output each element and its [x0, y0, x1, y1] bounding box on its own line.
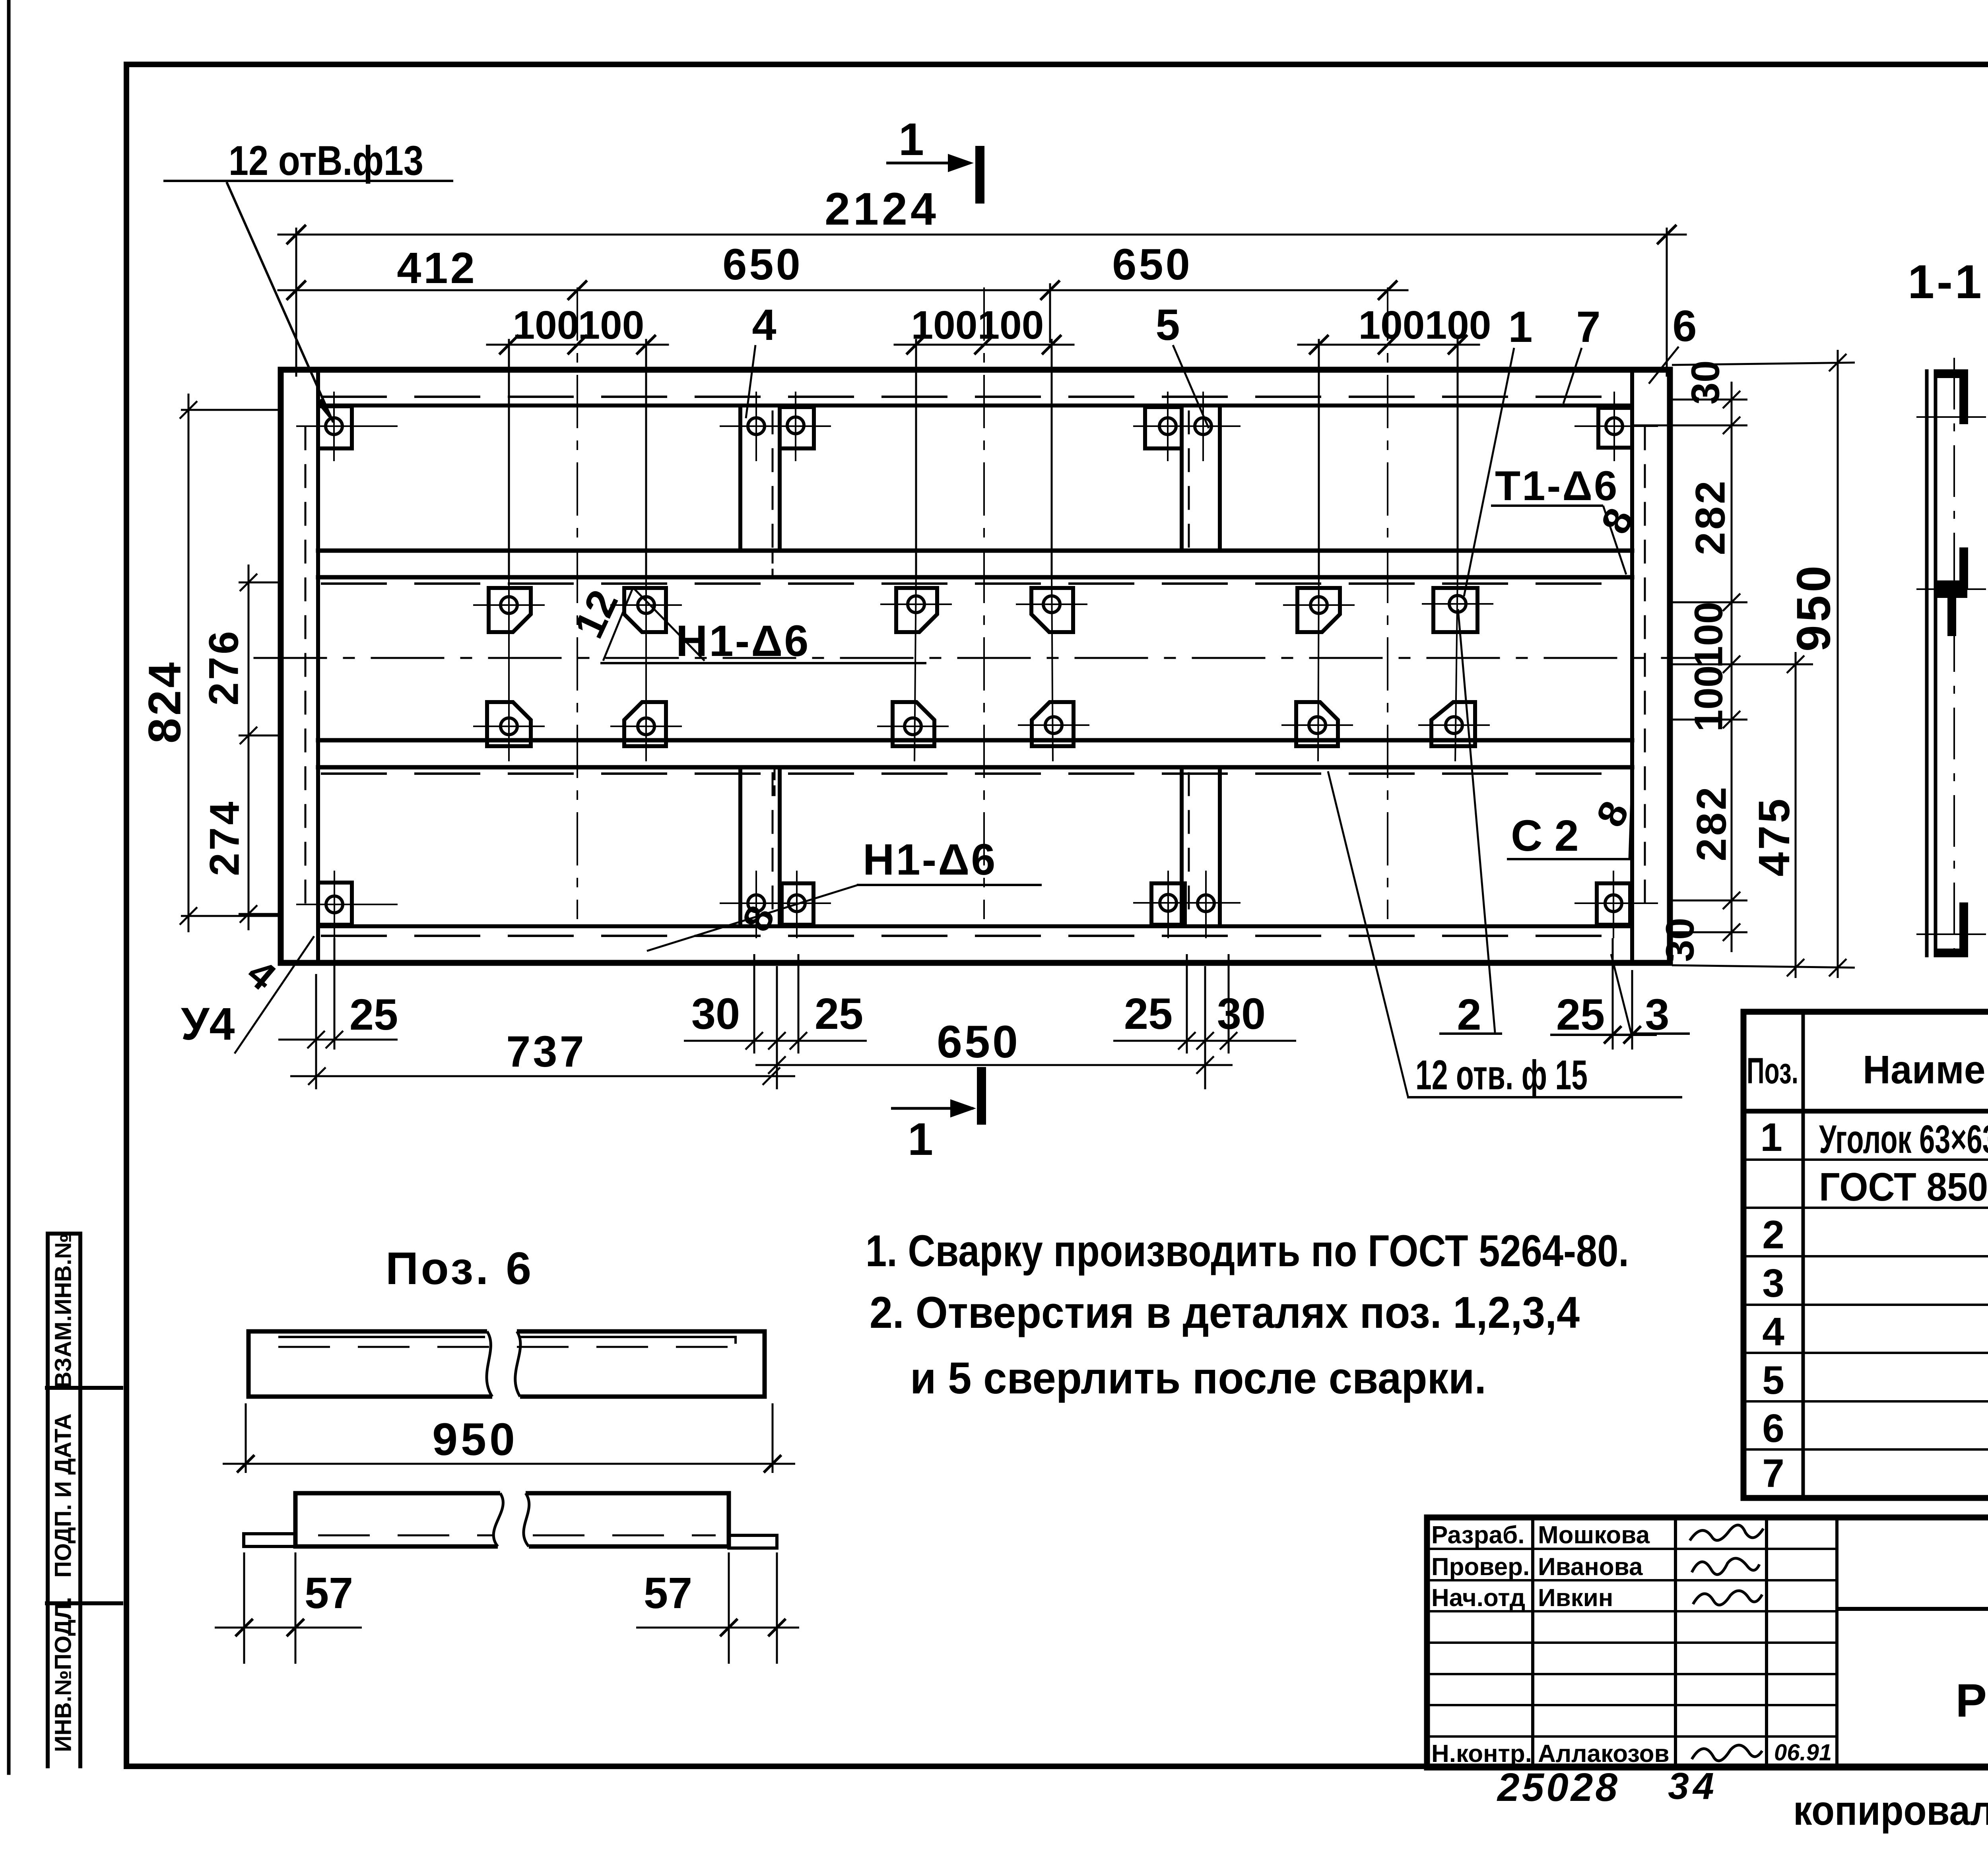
svg-text:6: 6	[1762, 1406, 1784, 1451]
group centre axis C	[1387, 288, 1388, 918]
parts table outer border	[1743, 1012, 1988, 1498]
svg-text:1: 1	[908, 1114, 933, 1165]
P6 profile break squiggles	[493, 1493, 503, 1546]
bottom rail hidden line	[322, 935, 1630, 937]
P6 hidden line	[278, 1346, 755, 1348]
svg-text:412: 412	[397, 244, 477, 293]
P6 profile right lip	[729, 1535, 777, 1548]
title block designation cell line	[1837, 1607, 1988, 1611]
clip P1 left of P5 top	[1145, 407, 1182, 448]
svg-text:4: 4	[752, 301, 776, 349]
group centre axis B	[983, 288, 985, 918]
svg-text:1-1: 1-1	[1908, 255, 1984, 308]
svg-text:25: 25	[349, 990, 398, 1039]
svg-text:Поз. 6: Поз. 6	[386, 1243, 534, 1294]
second middle rail P7 lower edge	[318, 765, 1632, 770]
svg-text:Иванова: Иванова	[1538, 1553, 1643, 1581]
svg-text:34: 34	[1668, 1765, 1718, 1807]
svg-text:5: 5	[1762, 1358, 1784, 1403]
HOLES	[296, 392, 1658, 938]
svg-text:С2: С2	[1511, 811, 1591, 860]
clip P2 top-right corner	[1598, 408, 1632, 448]
svg-text:7: 7	[1576, 303, 1600, 351]
cross member P5 upper hidden edge	[1188, 411, 1190, 549]
svg-text:Н1-Δ6: Н1-Δ6	[863, 835, 997, 884]
holes row2 f15	[501, 596, 1466, 613]
extension lines top dims	[296, 229, 1667, 574]
P6 profile view left lip	[244, 1534, 295, 1546]
svg-text:3: 3	[1645, 990, 1669, 1039]
section axis line	[1953, 358, 1955, 968]
clip P2 bottom-right corner	[1597, 883, 1630, 925]
signature Ivanova	[1692, 1558, 1759, 1575]
extension lines 25 bottom right	[1612, 938, 1614, 1050]
clip P1 right of P4 bottom	[782, 883, 813, 925]
dim line 737	[290, 1075, 795, 1077]
section mid upper angle	[1959, 547, 1968, 589]
dim line 950 right	[1837, 350, 1839, 978]
P6 profile body left half	[295, 1493, 500, 1546]
extension lines bottom group P5	[1186, 954, 1188, 1054]
section mid lower angle	[1936, 589, 1967, 598]
svg-text:950: 950	[432, 1414, 518, 1465]
svg-text:Т1-Δ6: Т1-Δ6	[1495, 463, 1619, 509]
svg-text:100: 100	[1686, 602, 1731, 668]
svg-text:12 отВ.ф13: 12 отВ.ф13	[229, 138, 423, 184]
bottom rail P7 inner edge	[318, 924, 1632, 928]
svg-text:25028: 25028	[1497, 1765, 1620, 1810]
svg-text:2. Отверстия в деталях поз. 1,: 2. Отверстия в деталях поз. 1,2,3,4	[870, 1288, 1580, 1337]
page left edge line	[7, 0, 11, 1773]
svg-text:ИНВ.№ПОДЛ.: ИНВ.№ПОДЛ.	[50, 1597, 76, 1752]
dim line 25 bottom left	[278, 1039, 398, 1041]
P6 dim 57 right	[636, 1627, 799, 1629]
extension lines bottom group P4	[753, 954, 755, 1054]
svg-text:25: 25	[815, 989, 863, 1038]
parts table row lines	[1743, 1158, 1988, 1161]
svg-text:Поз.: Поз.	[1747, 1051, 1798, 1091]
frame outer outline	[281, 370, 1670, 963]
svg-text:25: 25	[1556, 990, 1605, 1039]
top rail hidden line	[322, 396, 1630, 398]
dim lines 100+100 group C	[1298, 344, 1479, 346]
dim lines 100+100 group A	[487, 344, 668, 346]
svg-text:2: 2	[1762, 1213, 1784, 1257]
holes row3 f15	[501, 717, 1462, 735]
svg-text:100: 100	[1425, 303, 1491, 347]
bottom dims	[278, 938, 1632, 1089]
cross member P4 upper part	[740, 405, 780, 551]
svg-text:7: 7	[1762, 1451, 1784, 1496]
dim chain 412-650-650	[278, 289, 1408, 291]
clip P1 right of P4 top	[780, 407, 814, 448]
section bottom angle	[1959, 902, 1968, 957]
title block row lines	[1427, 1548, 1837, 1550]
hole center verticals rows2-3	[509, 572, 1458, 761]
clip P3 row3 f	[1431, 702, 1475, 746]
P6 flange edge line	[278, 1337, 736, 1344]
clip P3 row2 f	[1433, 588, 1477, 632]
P6 long view outline right half	[517, 1331, 765, 1397]
signature Ivkin	[1693, 1591, 1762, 1605]
svg-text:30: 30	[1658, 918, 1702, 962]
right end angle hidden line	[1644, 427, 1646, 914]
svg-text:57: 57	[644, 1569, 692, 1618]
svg-text:Уголок 63×63×6: Уголок 63×63×6	[1819, 1117, 1988, 1162]
parts table column lines	[1802, 1012, 1805, 1498]
svg-text:Нач.отд: Нач.отд	[1431, 1584, 1525, 1612]
parts table header line	[1743, 1109, 1988, 1114]
signature Allakozov	[1692, 1745, 1762, 1761]
svg-text:5.407-139.1-20: 5.407-139.1-20	[1986, 1541, 1988, 1595]
top rail P7 inner edge	[318, 404, 1632, 407]
frame horizontal axis line	[254, 657, 1694, 659]
clip P3 row2 d	[1031, 588, 1073, 632]
P6 break squiggle left	[487, 1331, 492, 1397]
dim line 824	[188, 394, 190, 932]
svg-text:100: 100	[513, 303, 579, 347]
section mark 1 top	[886, 114, 984, 204]
title block vertical lines left part	[1531, 1517, 1534, 1768]
cross member P4 lower part	[740, 767, 780, 926]
holes row4 f13	[326, 894, 1622, 913]
svg-text:Рама Р5: Рама Р5	[1955, 1674, 1988, 1727]
svg-text:100: 100	[911, 303, 978, 347]
svg-text:Н.контр.: Н.контр.	[1431, 1740, 1532, 1768]
svg-text:06.91: 06.91	[1774, 1740, 1832, 1766]
left stamp column strip	[47, 1234, 121, 1766]
cross member P5 upper part	[1182, 405, 1220, 551]
svg-text:650: 650	[1112, 240, 1192, 289]
clip P3 row3 d	[1032, 702, 1074, 746]
svg-text:475: 475	[1750, 796, 1799, 877]
P6 dim 57 left	[215, 1627, 362, 1629]
P6 dim 950	[223, 1463, 795, 1465]
cross member P5 lower part	[1182, 767, 1220, 926]
cross member P4 lower hidden edge	[772, 773, 774, 924]
section vertical plate P6	[1925, 369, 1929, 957]
clip P2 top-left corner	[318, 406, 352, 448]
svg-text:25: 25	[1124, 989, 1173, 1038]
svg-text:и 5 сверлить после сварки.: и 5 сверлить после сварки.	[910, 1353, 1486, 1403]
clip P3 row3 e	[1296, 702, 1338, 746]
middle rail P7 lower edge	[318, 575, 1632, 580]
section top angle	[1936, 369, 1967, 378]
clip P3 row3 c	[893, 702, 934, 746]
clip P3 row3 a	[487, 702, 531, 746]
clip P3 row2 e	[1297, 588, 1340, 632]
left dims group	[180, 394, 283, 932]
svg-text:2124: 2124	[825, 184, 939, 235]
dim line 650 bottom	[755, 1064, 1233, 1066]
right end angle P6 inner edge	[1630, 370, 1634, 963]
clip P3 row2 b	[624, 588, 666, 632]
svg-text:1. Сварку производить по ГОСТ: 1. Сварку производить по ГОСТ 5264-80.	[866, 1226, 1629, 1276]
left end angle P6 inner edge	[316, 370, 320, 963]
svg-text:650: 650	[937, 1017, 1020, 1067]
clip P3 row2 c	[896, 588, 937, 632]
hole centerlines row2	[473, 604, 1493, 605]
holes row1 f13	[326, 417, 1623, 435]
svg-text:2: 2	[1457, 990, 1481, 1039]
svg-text:4: 4	[1762, 1310, 1784, 1354]
group centre axis A	[577, 288, 578, 918]
P6 profile body right half	[526, 1493, 729, 1546]
dim lines 100+100 group B	[895, 344, 1074, 346]
svg-text:Разраб.: Разраб.	[1431, 1521, 1524, 1549]
svg-text:30: 30	[691, 989, 740, 1038]
extension lines left dims	[181, 409, 283, 411]
svg-text:274: 274	[202, 799, 248, 876]
svg-text:Наименование: Наименование	[1863, 1048, 1988, 1092]
cross member P5 lower hidden edge	[1188, 773, 1190, 924]
svg-text:100: 100	[978, 303, 1044, 347]
middle rail hidden line	[322, 582, 1630, 585]
svg-text:5: 5	[1155, 301, 1180, 349]
middle rail P7 upper edge	[318, 549, 1632, 553]
svg-text:1: 1	[1508, 303, 1532, 351]
svg-text:100: 100	[1359, 303, 1425, 347]
dim line 25-30 bottom right group	[1113, 1040, 1296, 1042]
svg-text:ВЗАМ.ИНВ.№: ВЗАМ.ИНВ.№	[50, 1233, 76, 1388]
svg-text:Ивкин: Ивкин	[1538, 1584, 1613, 1612]
second middle rail P7 upper edge	[318, 738, 1632, 743]
dim line 30-25 bottom left group	[684, 1040, 867, 1042]
svg-text:737: 737	[506, 1027, 586, 1076]
P6 break squiggle right	[515, 1331, 520, 1397]
svg-text:100: 100	[578, 303, 645, 347]
chain dim line right	[1731, 382, 1733, 952]
svg-text:276: 276	[201, 629, 247, 705]
section mark 1 bottom	[891, 1067, 986, 1165]
svg-text:Н1-Δ6: Н1-Δ6	[676, 617, 810, 665]
svg-text:6: 6	[1672, 302, 1697, 351]
dim line 2124	[278, 234, 1686, 236]
svg-text:30: 30	[1217, 989, 1266, 1038]
cross member P4 joint dashes at middle rails	[772, 553, 774, 576]
svg-text:12 отв. ф 15: 12 отв. ф 15	[1415, 1052, 1588, 1098]
hole centerlines row4	[296, 871, 1658, 938]
svg-text:копировал: Барковская: копировал: Барковская	[1793, 1787, 1988, 1834]
svg-text:100: 100	[1686, 665, 1731, 732]
svg-text:У4: У4	[181, 999, 235, 1050]
section tick lines	[1916, 416, 1986, 418]
clip P1 left of P5 bottom	[1151, 883, 1185, 925]
svg-text:57: 57	[305, 1569, 353, 1618]
cross member P4 upper hidden edge	[772, 411, 774, 549]
extension lines bottom left 25	[315, 974, 317, 1089]
hole centerlines row1	[296, 392, 1658, 461]
svg-text:650: 650	[722, 240, 803, 289]
svg-text:282: 282	[1687, 478, 1734, 555]
clip P3 row3 b	[624, 702, 666, 746]
dim line 475	[1795, 652, 1797, 978]
clip P2 bottom-left corner	[318, 883, 352, 925]
P6 profile hidden lines	[318, 1535, 493, 1537]
svg-text:3: 3	[1762, 1261, 1784, 1306]
svg-text:30: 30	[1683, 360, 1728, 404]
hole centerlines row3	[473, 725, 1490, 726]
right dims group	[1634, 350, 1855, 978]
extension lines right chain	[1672, 399, 1747, 401]
svg-text:282: 282	[1689, 784, 1735, 861]
svg-text:ПОДП. И ДАТА: ПОДП. И ДАТА	[50, 1413, 76, 1577]
svg-text:ГОСТ 8509-86; ℓ=50: ГОСТ 8509-86; ℓ=50	[1819, 1165, 1988, 1209]
svg-text:1: 1	[899, 114, 924, 165]
svg-text:824: 824	[139, 660, 190, 743]
svg-text:Аллакозов: Аллакозов	[1538, 1740, 1670, 1768]
svg-text:950: 950	[1787, 563, 1840, 652]
svg-text:Мошкова: Мошкова	[1538, 1521, 1650, 1549]
clip P3 row2 a	[489, 588, 531, 632]
P6 long view outline left half	[248, 1331, 492, 1397]
svg-text:1: 1	[1760, 1115, 1782, 1160]
svg-text:Провер.: Провер.	[1431, 1553, 1530, 1581]
signature Moshkova	[1690, 1525, 1763, 1541]
title block outer border	[1427, 1517, 1988, 1768]
left end angle hidden line	[305, 427, 307, 914]
second middle rail hidden line	[322, 772, 1630, 775]
dim line 276-274	[248, 565, 250, 930]
